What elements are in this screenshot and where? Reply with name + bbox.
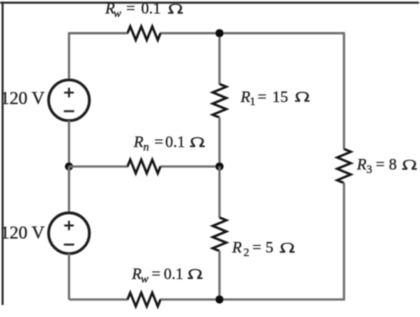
svg-text:120 V: 120 V [1,223,45,243]
node dot left middle [65,162,73,170]
node dot top center [215,29,223,37]
label omega (bottom Rw) [188,269,203,279]
Vs1 minus sign [64,110,74,112]
wire left column mid lower [68,167,70,213]
wire center column lower [218,251,220,300]
voltage source Vs1 circle [49,80,90,121]
svg-text:120 V: 120 V [1,88,45,108]
resistor Rw bottom zigzag [128,293,161,307]
wire middle left segment [69,165,128,167]
label omega (top Rw) [168,4,183,14]
svg-text:Rw=0.1: Rw=0.1 [104,1,161,21]
border frame left edge [2,2,4,305]
label omega (R2) [280,243,295,253]
resistor R1 zigzag [213,84,227,118]
label omega (Rn) [190,137,205,147]
resistor Rn zigzag [128,160,161,174]
svg-text:R3=8: R3=8 [356,157,397,176]
wire right column upper [343,32,345,149]
wire center column upper [218,33,220,84]
label omega (R1) [295,92,310,102]
Vs2 plus sign [64,221,74,231]
label omega (R3) [402,160,417,170]
voltage source Vs2 circle [49,213,90,254]
node dot bottom center [215,295,223,303]
wire bottom right segment [160,298,344,300]
wire middle right segment [160,165,220,167]
resistor R2 zigzag [213,218,227,252]
svg-text:R1=15: R1=15 [240,89,289,108]
svg-text:R2=5: R2=5 [231,240,273,259]
Vs1 plus sign [64,88,74,98]
node dot center middle [215,162,223,170]
wire right column lower [343,183,345,301]
wire bottom left segment [69,298,128,300]
svg-text:Rn=0.1: Rn=0.1 [133,134,185,154]
Vs2 minus sign [64,244,74,246]
resistor Rw top zigzag [128,26,161,40]
svg-text:Rw=0.1: Rw=0.1 [131,266,184,286]
border frame top edge [0,2,419,4]
wire center column below middle node [218,167,220,219]
wire top right segment [160,32,344,34]
wire top left segment [69,32,128,34]
wire left column bottom [68,254,70,300]
resistor R3 zigzag [337,149,351,183]
wire center column between R1 and middle node [218,118,220,167]
wire left column mid upper [68,121,70,167]
wire left column top [68,32,70,80]
